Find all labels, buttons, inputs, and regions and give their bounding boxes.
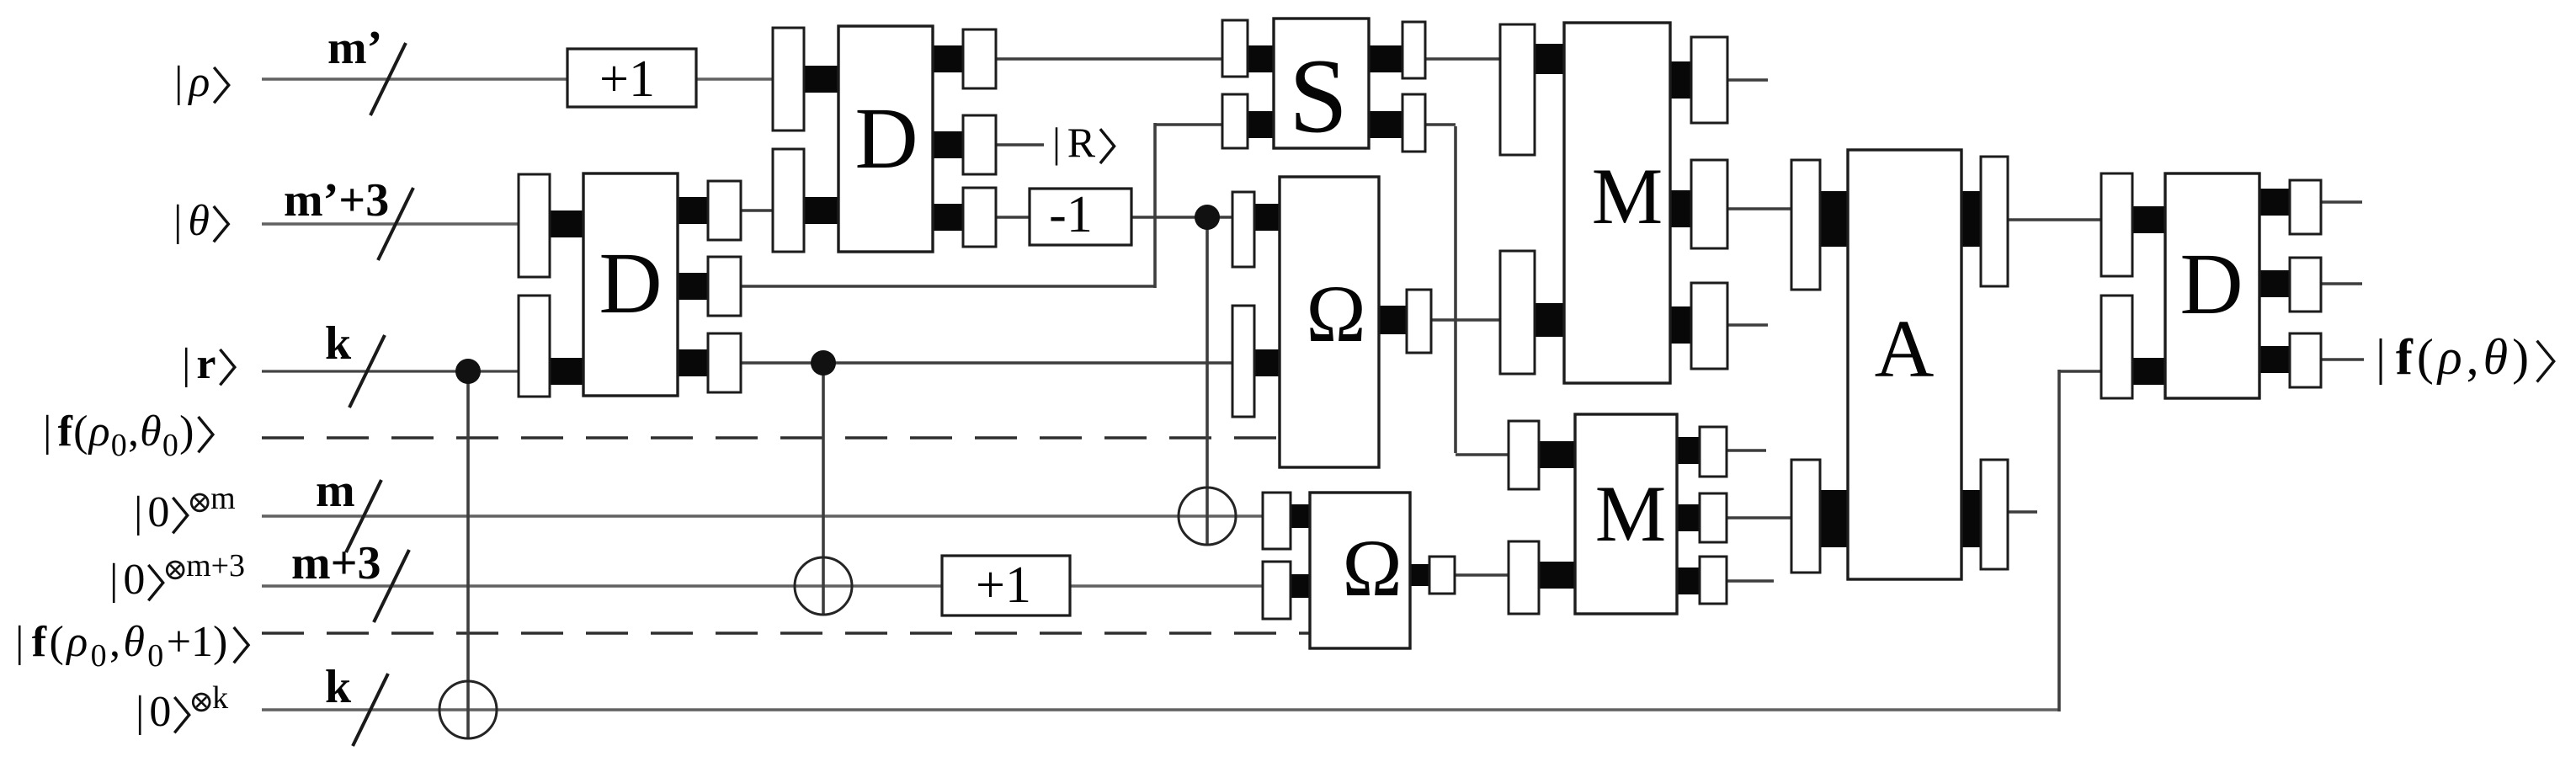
svg-text:,: , (128, 408, 139, 456)
svg-text:|: | (134, 488, 142, 536)
svg-text:D: D (854, 90, 918, 187)
svg-text:(: ( (2417, 329, 2434, 385)
svg-text:0: 0 (123, 556, 145, 604)
svg-text:ρ: ρ (88, 408, 110, 456)
svg-text:|: | (182, 340, 190, 388)
svg-text:r: r (196, 340, 216, 388)
svg-text:ρ: ρ (65, 618, 88, 666)
svg-text:|: | (109, 556, 118, 604)
svg-text:m+3: m+3 (186, 548, 245, 583)
svg-text:A: A (1875, 304, 1935, 395)
svg-text:|: | (136, 688, 144, 736)
svg-text:0: 0 (162, 428, 178, 463)
svg-text:0: 0 (149, 688, 171, 736)
svg-text:m’: m’ (327, 22, 382, 74)
svg-text:m’+3: m’+3 (284, 174, 389, 226)
svg-text:Ω: Ω (1306, 269, 1365, 359)
svg-text:f: f (2396, 329, 2414, 385)
svg-text:m: m (316, 465, 355, 517)
svg-text:D: D (2179, 236, 2243, 333)
svg-text:,: , (2467, 329, 2479, 385)
svg-text:0: 0 (111, 428, 127, 463)
svg-text:+1: +1 (976, 557, 1031, 614)
svg-text:|: | (43, 408, 51, 456)
svg-text:k: k (212, 680, 228, 716)
svg-text:|: | (2376, 329, 2386, 385)
svg-text:-1: -1 (1049, 186, 1093, 243)
svg-text:,: , (109, 618, 120, 666)
svg-text:Ω: Ω (1342, 523, 1402, 613)
svg-text:S: S (1289, 38, 1348, 155)
svg-text:k: k (325, 661, 352, 713)
svg-text:+1): +1) (167, 618, 228, 666)
svg-text:θ: θ (140, 408, 162, 456)
svg-text:ρ: ρ (2436, 329, 2462, 385)
svg-text:m: m (210, 481, 236, 516)
svg-text:D: D (599, 235, 662, 332)
svg-text:+1: +1 (599, 51, 655, 108)
svg-text:R: R (1067, 119, 1096, 166)
svg-text:θ: θ (188, 197, 210, 245)
svg-text:k: k (325, 317, 352, 370)
svg-text:|: | (174, 58, 183, 106)
svg-text:): ) (2512, 329, 2529, 385)
svg-text:|: | (15, 618, 24, 666)
svg-text:M: M (1592, 152, 1663, 241)
svg-text:(: ( (49, 618, 63, 666)
svg-text:M: M (1595, 469, 1666, 558)
svg-text:m+3: m+3 (291, 537, 381, 589)
svg-text:|: | (173, 197, 182, 245)
svg-text:ρ: ρ (187, 58, 210, 106)
svg-text:f: f (58, 408, 73, 456)
svg-text:0: 0 (147, 488, 169, 536)
svg-text:f: f (32, 618, 47, 666)
svg-text:): ) (179, 408, 194, 456)
svg-text:0: 0 (91, 638, 107, 674)
svg-text:0: 0 (147, 638, 163, 674)
svg-text:θ: θ (123, 618, 145, 666)
svg-text:θ: θ (2483, 329, 2508, 385)
svg-text:|: | (1052, 119, 1061, 166)
svg-text:(: ( (73, 408, 88, 456)
